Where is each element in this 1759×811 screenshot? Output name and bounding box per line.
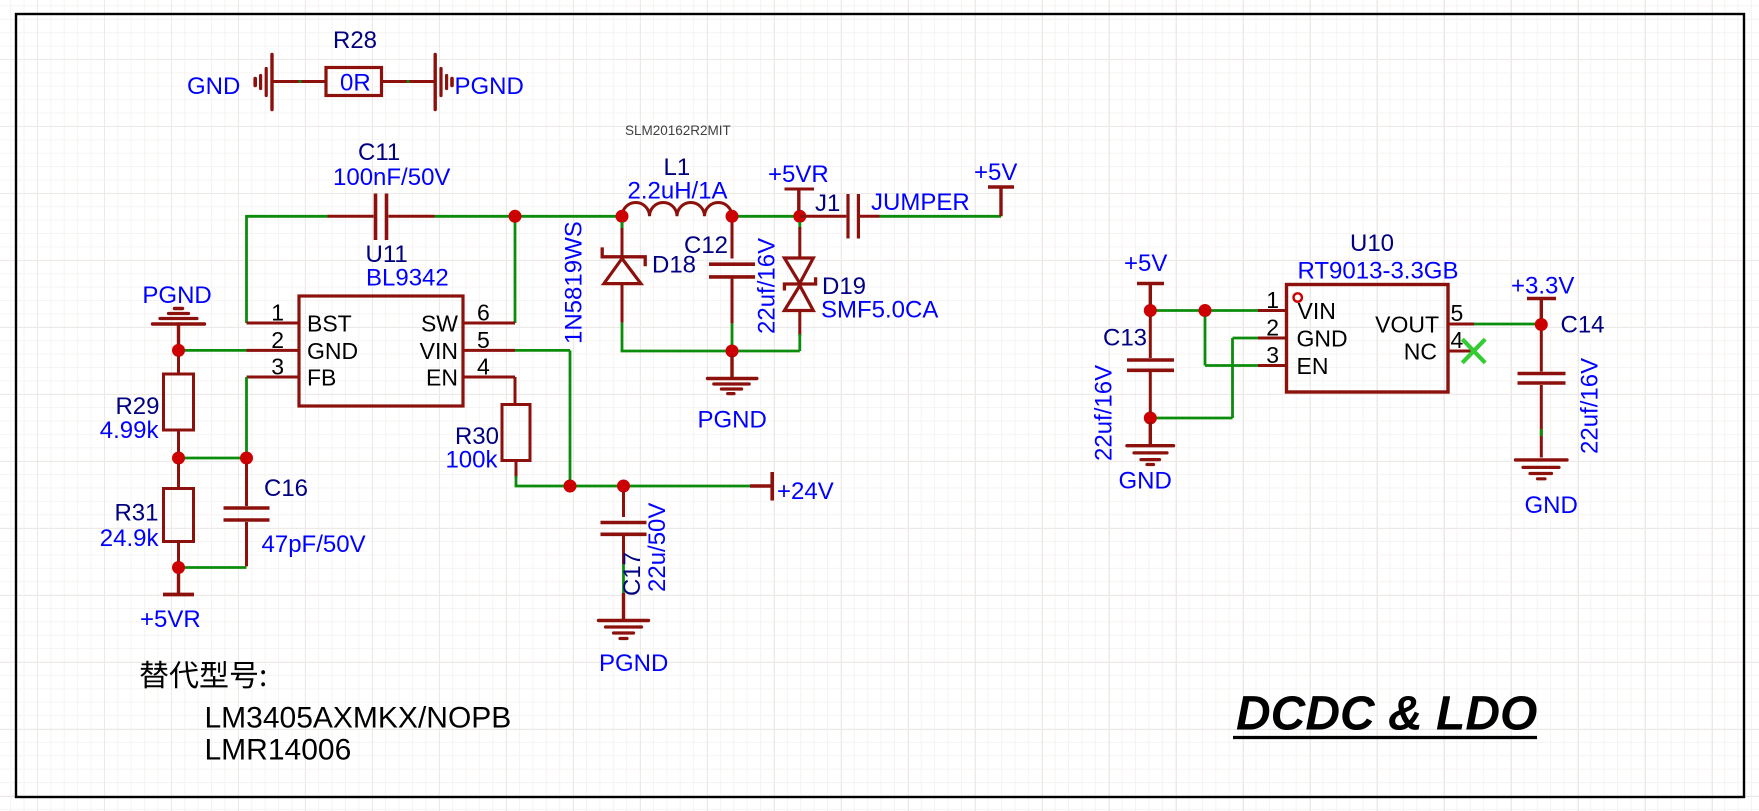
pin 1 VIN	[1258, 287, 1336, 324]
pin 3 EN	[1258, 342, 1328, 379]
svg-text:1N5819WS: 1N5819WS	[561, 221, 588, 344]
svg-text:C11: C11	[358, 139, 400, 166]
svg-text:C14: C14	[1561, 312, 1605, 339]
svg-text:22uf/16V: 22uf/16V	[1577, 358, 1604, 454]
svg-text:VIN: VIN	[1298, 298, 1336, 324]
svg-text:EN: EN	[426, 365, 458, 391]
power port +5V at C13	[1137, 284, 1164, 311]
wire GND to R28	[274, 80, 327, 83]
junction L1 left	[616, 210, 629, 223]
ground net port PGND at C12	[708, 357, 757, 394]
power port +24V	[750, 472, 772, 501]
junction SW/C11	[509, 210, 522, 223]
svg-text:47pF/50V: 47pF/50V	[262, 531, 366, 558]
svg-text:R28: R28	[333, 27, 377, 54]
schottky diode D18	[602, 222, 645, 323]
svg-text:22uf/16V: 22uf/16V	[1091, 365, 1118, 461]
svg-text:BL9342: BL9342	[366, 265, 449, 292]
title DCDC &amp; LDO	[1233, 688, 1537, 741]
wire +5V to VIN	[1150, 309, 1258, 312]
svg-text:FB: FB	[307, 365, 336, 391]
wire R31 to C16 bottom	[179, 566, 247, 569]
svg-text:5: 5	[1451, 300, 1464, 326]
resistor R31	[164, 464, 194, 568]
svg-text:C17: C17	[619, 552, 646, 596]
pin 2 GND	[247, 327, 359, 364]
svg-text:0R: 0R	[340, 70, 371, 97]
power port +5VR top	[785, 189, 815, 211]
svg-text:VOUT: VOUT	[1375, 312, 1439, 338]
svg-text:SMF5.0CA: SMF5.0CA	[821, 297, 938, 324]
svg-text:LMR14006: LMR14006	[205, 734, 352, 767]
svg-text:J1: J1	[815, 190, 840, 217]
pin 1 BST	[247, 300, 352, 337]
svg-text:PGND: PGND	[142, 282, 211, 309]
junction C12/PGND	[726, 345, 739, 358]
capacitor C11	[328, 194, 435, 241]
svg-text:GND: GND	[1297, 326, 1348, 352]
svg-text:22u/50V: 22u/50V	[644, 503, 671, 592]
wire FB vertical	[245, 377, 248, 458]
svg-text:U10: U10	[1350, 230, 1394, 257]
svg-text:BST: BST	[307, 311, 352, 337]
wire PGND net middle	[621, 323, 800, 351]
svg-text:24.9k: 24.9k	[100, 525, 160, 552]
svg-text:SLM20162R2MIT: SLM20162R2MIT	[625, 123, 731, 138]
svg-text:GND: GND	[187, 73, 240, 100]
capacitor C12	[709, 223, 755, 324]
svg-text:6: 6	[477, 300, 490, 326]
junction +5VR/D19	[793, 210, 806, 223]
power port +5VR bottom	[163, 574, 194, 595]
junction C13 bottom	[1144, 412, 1157, 425]
svg-text:3: 3	[1266, 342, 1279, 368]
note 替代型号:	[140, 661, 265, 689]
svg-text:1: 1	[271, 300, 284, 326]
junction FB/C16	[240, 452, 253, 465]
junction +5V/C13	[1144, 304, 1157, 317]
svg-text:R29: R29	[115, 393, 159, 420]
junction R29/R31	[172, 452, 185, 465]
connector J1 jumper	[800, 194, 880, 239]
ground net port GND	[255, 55, 272, 110]
svg-text:22uf/16V: 22uf/16V	[754, 238, 781, 334]
svg-text:+5VR: +5VR	[768, 161, 829, 188]
wire VOUT net	[1474, 323, 1541, 326]
svg-text:LM3405AXMKX/NOPB: LM3405AXMKX/NOPB	[205, 702, 512, 735]
capacitor C17	[601, 492, 647, 621]
svg-text:1: 1	[1266, 287, 1279, 313]
resistor R28	[326, 68, 382, 96]
inductor L1	[622, 203, 732, 217]
capacitor C16	[224, 464, 270, 567]
svg-text:+3.3V: +3.3V	[1511, 273, 1574, 300]
power port +5V right	[988, 187, 1014, 216]
svg-text:GND: GND	[1119, 468, 1172, 495]
svg-text:VIN: VIN	[420, 338, 458, 364]
junction VOUT/C14	[1535, 318, 1548, 331]
wire GND pin2 net	[179, 349, 247, 352]
pin 4 NC	[1404, 327, 1471, 365]
junction L1 right	[726, 210, 739, 223]
svg-text:2.2uH/1A: 2.2uH/1A	[628, 178, 728, 205]
svg-text:GND: GND	[307, 338, 358, 364]
svg-text:C12: C12	[684, 232, 728, 259]
svg-text:RT9013-3.3GB: RT9013-3.3GB	[1298, 258, 1459, 285]
pin 2 GND	[1258, 315, 1348, 352]
wire J1 to +5V	[880, 215, 1002, 218]
svg-text:C13: C13	[1103, 325, 1147, 352]
pin 3 FB	[247, 354, 337, 391]
svg-text:+5VR: +5VR	[140, 606, 201, 633]
junction PGND/R29	[172, 344, 185, 357]
svg-text:+5V: +5V	[974, 159, 1017, 186]
svg-text:PGND: PGND	[698, 407, 767, 434]
svg-text:PGND: PGND	[455, 73, 524, 100]
capacitor C14	[1518, 331, 1566, 458]
junction VIN/EN branch	[1199, 304, 1212, 317]
svg-text:4: 4	[477, 354, 490, 380]
capacitor C13	[1127, 316, 1174, 413]
svg-text:R31: R31	[114, 500, 158, 527]
svg-text:GND: GND	[1525, 492, 1578, 519]
svg-text:DCDC & LDO: DCDC & LDO	[1236, 688, 1537, 741]
svg-text:+5V: +5V	[1124, 250, 1167, 277]
wire U10 GND net	[1150, 338, 1258, 418]
svg-text:3: 3	[271, 354, 284, 380]
pin 4 EN	[426, 354, 515, 391]
TVS diode D19	[784, 222, 815, 351]
junction C17 top	[617, 480, 630, 493]
svg-text:100nF/50V: 100nF/50V	[333, 164, 450, 191]
ground net port GND at C14	[1516, 460, 1568, 479]
ground net port PGND	[435, 55, 452, 110]
power port +3.3V	[1527, 299, 1556, 319]
wire SW net left	[247, 215, 623, 323]
pin 5 VIN	[420, 327, 515, 364]
svg-text:NC: NC	[1404, 339, 1437, 365]
ground net port PGND at C17	[599, 621, 649, 639]
wire +24V net	[515, 350, 750, 486]
resistor R29	[164, 356, 194, 458]
resistor R30	[502, 377, 530, 478]
pin 6 SW	[421, 300, 515, 337]
svg-text:5: 5	[477, 327, 490, 353]
svg-text:2: 2	[271, 327, 284, 353]
svg-text:2: 2	[1266, 315, 1279, 341]
wire R28 to PGND	[382, 80, 434, 83]
wire L1 to J1	[732, 215, 800, 218]
svg-text:100k: 100k	[445, 447, 498, 474]
svg-text:C16: C16	[264, 475, 308, 502]
IC U10	[1287, 285, 1449, 393]
IC U11	[299, 296, 463, 406]
ground net port PGND at U11	[153, 309, 205, 351]
wire FB divider link	[179, 457, 247, 460]
svg-text:+24V: +24V	[777, 478, 834, 505]
svg-text:4.99k: 4.99k	[100, 417, 160, 444]
svg-text:JUMPER: JUMPER	[871, 189, 970, 216]
svg-text:SW: SW	[421, 311, 458, 337]
junction VIN/+24V	[564, 480, 577, 493]
ground net port GND at C13	[1127, 424, 1174, 465]
svg-text:PGND: PGND	[599, 650, 668, 677]
wire EN tie	[1205, 317, 1258, 366]
junction R31/+5VR	[172, 561, 185, 574]
no-connect flag on NC	[1462, 339, 1485, 363]
pin 5 VOUT	[1375, 300, 1474, 338]
svg-text:EN: EN	[1297, 353, 1329, 379]
